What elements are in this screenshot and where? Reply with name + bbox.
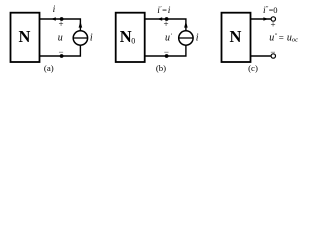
svg-text:N: N bbox=[230, 27, 242, 46]
svg-text:i: i bbox=[168, 6, 171, 16]
svg-text:−: − bbox=[270, 47, 275, 57]
svg-text:+: + bbox=[58, 19, 63, 29]
svg-text:i: i bbox=[196, 33, 199, 44]
svg-text:+: + bbox=[270, 20, 275, 30]
svg-text:−: − bbox=[164, 47, 169, 57]
svg-text:N: N bbox=[120, 27, 132, 46]
svg-text:oc: oc bbox=[292, 37, 298, 44]
svg-text:0: 0 bbox=[273, 5, 277, 15]
svg-text:″: ″ bbox=[275, 33, 278, 40]
svg-text:u: u bbox=[58, 33, 63, 44]
svg-text:(a): (a) bbox=[44, 63, 54, 73]
svg-text:=: = bbox=[279, 33, 284, 43]
svg-text:+: + bbox=[163, 19, 168, 29]
svg-text:i: i bbox=[53, 5, 56, 15]
svg-text:i: i bbox=[90, 33, 93, 44]
svg-text:(c): (c) bbox=[248, 63, 258, 73]
svg-text:u: u bbox=[269, 33, 274, 44]
svg-text:0: 0 bbox=[131, 36, 135, 45]
svg-text:−: − bbox=[58, 47, 63, 57]
svg-text:=: = bbox=[162, 5, 167, 15]
svg-text:u: u bbox=[165, 33, 170, 44]
svg-text:N: N bbox=[19, 27, 31, 46]
svg-text:(b): (b) bbox=[156, 63, 166, 73]
